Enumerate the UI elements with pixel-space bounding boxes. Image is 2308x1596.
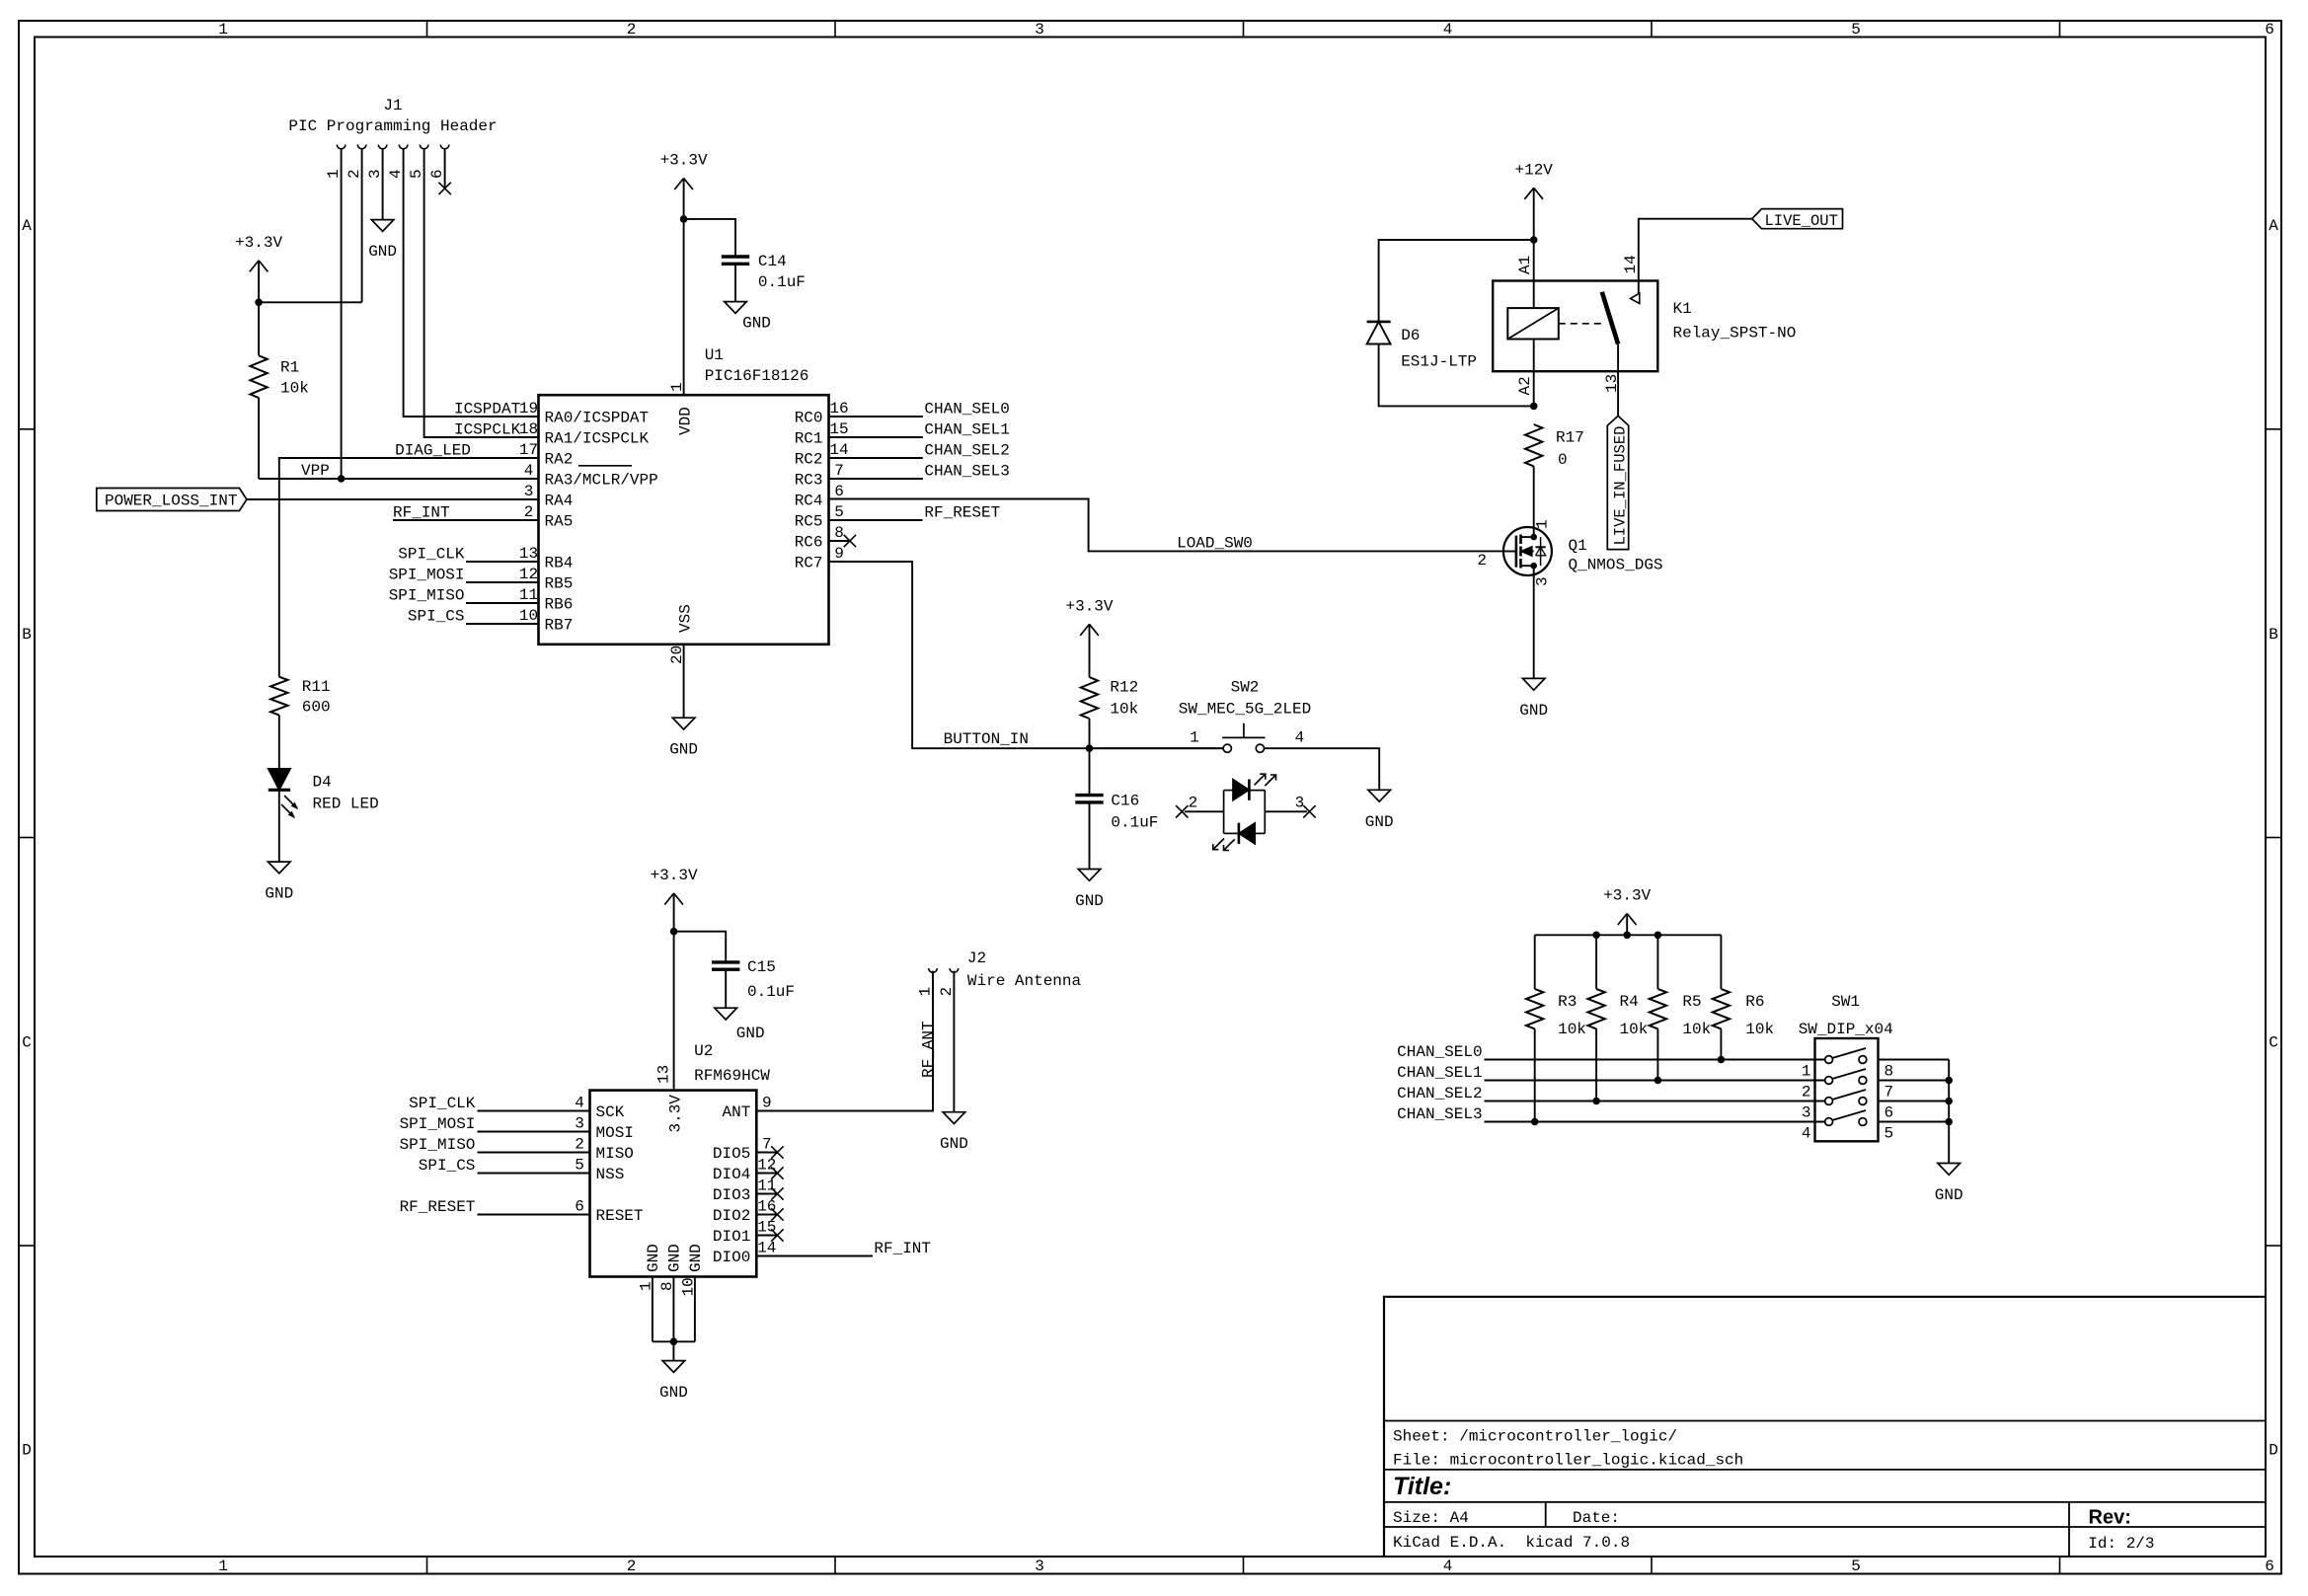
- svg-text:CHAN_SEL2: CHAN_SEL2: [924, 441, 1009, 459]
- svg-text:CHAN_SEL2: CHAN_SEL2: [1397, 1085, 1482, 1102]
- capacitor C16: [1075, 794, 1103, 797]
- SW1 switch 1 contacts: [1825, 1056, 1833, 1064]
- Q1 body diode: [1540, 537, 1542, 566]
- wire J1 pin4 to ICSPDAT: [404, 149, 539, 417]
- K1 dashed coupling line: [1559, 323, 1605, 325]
- svg-text:DIO1: DIO1: [713, 1228, 750, 1246]
- svg-text:RC7: RC7: [795, 555, 823, 572]
- Q1 gate wire entering: [1503, 551, 1516, 553]
- wire +12V to D6 cathode: [1379, 240, 1534, 322]
- junction VDD/C14: [680, 215, 688, 223]
- wire Q1 source to GND: [1533, 566, 1535, 678]
- wire junction to C16: [1089, 748, 1091, 795]
- svg-text:RC0: RC0: [795, 410, 823, 427]
- svg-text:7: 7: [762, 1136, 772, 1154]
- Q1 drain stub: [1521, 536, 1534, 538]
- SW1 body: [1815, 1038, 1879, 1141]
- svg-text:10k: 10k: [1110, 701, 1138, 719]
- svg-text:9: 9: [762, 1095, 772, 1112]
- svg-text:+3.3V: +3.3V: [1603, 887, 1651, 905]
- svg-text:U2: U2: [694, 1042, 713, 1060]
- svg-text:SW_DIP_x04: SW_DIP_x04: [1799, 1021, 1893, 1038]
- K1 pin A2: [1533, 340, 1535, 407]
- SW2 LED2 (bottom, pointing left): [1224, 832, 1239, 834]
- svg-text:LOAD_SW0: LOAD_SW0: [1177, 535, 1253, 553]
- SW1 right bus vertical: [1948, 1060, 1950, 1164]
- J1 pin 5 connector circle: [420, 145, 428, 149]
- junction R3 bottom: [1531, 1118, 1539, 1126]
- ground symbol U1 VSS: [672, 718, 695, 729]
- svg-text:+3.3V: +3.3V: [660, 152, 708, 170]
- ground symbol SW1: [1938, 1164, 1961, 1176]
- K1 switch blade: [1602, 292, 1618, 344]
- capacitor C14: [722, 255, 749, 258]
- wire J1 pin3 to GND: [382, 149, 384, 220]
- svg-text:D: D: [22, 1442, 32, 1460]
- svg-text:Relay_SPST-NO: Relay_SPST-NO: [1673, 325, 1797, 342]
- svg-text:5: 5: [408, 169, 425, 179]
- wire CHAN_SEL3 to SW1: [1485, 1121, 1825, 1123]
- U2 DIO1 no-connect stub: [756, 1235, 777, 1237]
- wire SW1 right pin 5: [1879, 1121, 1950, 1123]
- svg-text:RC2: RC2: [795, 451, 823, 469]
- svg-text:SPI_CS: SPI_CS: [419, 1157, 476, 1175]
- SW2 actuator: [1222, 736, 1265, 738]
- svg-text:7: 7: [834, 462, 844, 480]
- svg-text:RB5: RB5: [545, 575, 574, 593]
- svg-text:RF_RESET: RF_RESET: [924, 503, 1000, 521]
- svg-text:6: 6: [1885, 1104, 1894, 1122]
- svg-text:2: 2: [938, 987, 956, 997]
- wire SPI_MISO to U1: [466, 602, 539, 604]
- K1 fixed contact (pin 14): [1631, 293, 1640, 304]
- wire SPI_CLK to U1: [466, 561, 539, 563]
- global label POWER_LOSS_INT: [97, 489, 247, 511]
- svg-text:SCK: SCK: [596, 1103, 625, 1121]
- frame column ticks: [426, 21, 428, 38]
- svg-text:MOSI: MOSI: [596, 1124, 634, 1142]
- power +3.3V (SW1 pullups): [1618, 914, 1627, 926]
- svg-text:16: 16: [757, 1198, 776, 1216]
- svg-text:8: 8: [1885, 1063, 1894, 1081]
- wire SPI_MOSI to U2: [478, 1131, 590, 1133]
- wire to C14: [684, 219, 735, 257]
- svg-text:1: 1: [1534, 519, 1552, 529]
- diode D6: [1367, 321, 1391, 324]
- svg-text:RB7: RB7: [545, 617, 574, 635]
- svg-text:+3.3V: +3.3V: [235, 234, 282, 252]
- wire SPI_MISO to U2: [478, 1152, 590, 1154]
- svg-text:12: 12: [519, 566, 538, 583]
- SW2 pin 2 stub no-connect: [1185, 810, 1224, 812]
- svg-text:PIC Programming Header: PIC Programming Header: [288, 117, 497, 135]
- svg-text:2: 2: [1802, 1084, 1811, 1102]
- junction R4 bottom: [1592, 1098, 1600, 1105]
- svg-text:13: 13: [655, 1065, 673, 1084]
- wire D6 anode to A2 node: [1379, 344, 1534, 407]
- svg-text:C16: C16: [1111, 793, 1139, 810]
- svg-text:RFM69HCW: RFM69HCW: [694, 1067, 770, 1085]
- ground symbol C14: [725, 302, 747, 314]
- svg-text:SPI_MOSI: SPI_MOSI: [400, 1115, 476, 1133]
- svg-text:RESET: RESET: [596, 1207, 644, 1225]
- svg-text:GND: GND: [1365, 813, 1394, 831]
- wire DIAG_LED (RA2 to R11): [279, 458, 539, 677]
- svg-text:6: 6: [428, 169, 446, 179]
- svg-text:B: B: [22, 626, 32, 644]
- SW1 switch 2 blade: [1832, 1069, 1866, 1079]
- wire RF_INT to RA5: [393, 519, 539, 521]
- svg-text:GND: GND: [669, 741, 698, 759]
- wire CHAN_SEL3 from U1: [829, 478, 923, 480]
- SW2 LED2 emission arrows: [1213, 839, 1224, 850]
- wire SW1 right pin 8: [1879, 1059, 1950, 1061]
- svg-text:CHAN_SEL0: CHAN_SEL0: [1397, 1043, 1482, 1061]
- svg-text:1: 1: [917, 987, 935, 997]
- svg-text:13: 13: [519, 545, 538, 563]
- wire CHAN_SEL1 from U1: [829, 436, 923, 438]
- wire CHAN_SEL2 from U1: [829, 457, 923, 459]
- svg-text:13: 13: [1603, 374, 1621, 393]
- svg-text:SPI_MOSI: SPI_MOSI: [389, 566, 465, 583]
- svg-text:14: 14: [1622, 255, 1640, 273]
- svg-text:2: 2: [1477, 552, 1487, 570]
- svg-text:Rev:: Rev:: [2089, 1507, 2131, 1529]
- svg-text:2: 2: [1189, 795, 1198, 812]
- svg-text:RA5: RA5: [545, 513, 574, 531]
- svg-text:DIAG_LED: DIAG_LED: [395, 441, 471, 459]
- svg-text:4: 4: [575, 1095, 584, 1112]
- wire RF_RESET to U2: [478, 1214, 590, 1216]
- svg-text:GND: GND: [265, 885, 293, 903]
- svg-text:DIO0: DIO0: [713, 1249, 750, 1266]
- wire SPI_CLK to U2: [478, 1110, 590, 1112]
- global label LIVE_OUT: [1752, 209, 1843, 229]
- power +3.3V (U2): [664, 893, 673, 905]
- svg-text:C14: C14: [758, 253, 787, 270]
- SW1 switch 4 blade: [1832, 1110, 1866, 1120]
- wire J1 pin1 to VPP net: [341, 149, 343, 479]
- power +3.3V (R12): [1080, 624, 1089, 636]
- svg-text:10k: 10k: [1745, 1021, 1774, 1038]
- connector J2 pin2 circle: [950, 968, 959, 972]
- wire to C15: [674, 932, 727, 962]
- SW1 switch 4 contacts: [1825, 1118, 1833, 1126]
- svg-text:LIVE_IN_FUSED: LIVE_IN_FUSED: [1611, 426, 1629, 546]
- svg-text:R1: R1: [280, 359, 299, 377]
- svg-text:ANT: ANT: [722, 1103, 750, 1121]
- svg-text:Date:: Date:: [1573, 1509, 1620, 1527]
- svg-text:SW_MEC_5G_2LED: SW_MEC_5G_2LED: [1179, 701, 1311, 719]
- junction VPP / J1 pin1: [338, 475, 346, 483]
- svg-text:GND: GND: [1935, 1186, 1963, 1204]
- ground symbol C15: [715, 1008, 737, 1020]
- svg-text:5: 5: [575, 1157, 584, 1175]
- relay K1 body: [1493, 281, 1657, 372]
- resistor R5: [1656, 935, 1658, 989]
- svg-text:9: 9: [834, 545, 844, 563]
- J1 pin 6 connector circle: [440, 145, 449, 149]
- svg-text:BUTTON_IN: BUTTON_IN: [944, 730, 1029, 748]
- svg-text:GND: GND: [742, 315, 771, 333]
- svg-text:5: 5: [1851, 21, 1861, 38]
- svg-text:GND: GND: [687, 1244, 705, 1272]
- svg-text:3: 3: [524, 483, 534, 500]
- svg-text:GND: GND: [1519, 702, 1548, 720]
- svg-text:0.1uF: 0.1uF: [747, 983, 795, 1001]
- transistor Q1 circle: [1503, 527, 1552, 575]
- svg-text:600: 600: [302, 699, 331, 717]
- svg-text:C15: C15: [747, 958, 776, 976]
- svg-text:ICSPCLK: ICSPCLK: [454, 420, 521, 438]
- svg-text:1: 1: [1802, 1063, 1811, 1081]
- junction BUTTON_IN/R12/C16: [1086, 744, 1094, 752]
- svg-text:14: 14: [829, 441, 848, 459]
- J1 pin 1 connector circle: [337, 145, 346, 149]
- svg-text:RC5: RC5: [795, 513, 823, 531]
- svg-text:LIVE_OUT: LIVE_OUT: [1765, 212, 1838, 230]
- svg-text:PIC16F18126: PIC16F18126: [705, 367, 809, 385]
- title block row lines: [1384, 1420, 2266, 1422]
- svg-text:ES1J-LTP: ES1J-LTP: [1401, 353, 1477, 371]
- SW2 pin 3 stub no-connect: [1265, 810, 1307, 812]
- ground symbol J1 pin3: [371, 220, 394, 232]
- LED D4 (filled triangle + cathode bar): [269, 769, 290, 790]
- ground symbol D4: [269, 862, 291, 874]
- svg-text:VDD: VDD: [677, 407, 695, 435]
- wire POWER_LOSS_INT to RA4: [247, 498, 539, 500]
- IC U2 body: [590, 1091, 757, 1277]
- SW2 internal LEDs block: [1223, 791, 1225, 834]
- svg-text:Wire Antenna: Wire Antenna: [967, 972, 1082, 990]
- Q1 body arrow: [1521, 547, 1533, 557]
- resistor R6: [1720, 935, 1722, 989]
- wire R11 to D4: [278, 716, 280, 769]
- svg-text:+3.3V: +3.3V: [1065, 597, 1113, 615]
- U2 DIO5 no-connect stub: [756, 1152, 777, 1154]
- svg-text:VSS: VSS: [677, 604, 695, 633]
- svg-text:8: 8: [834, 524, 844, 542]
- svg-text:RF_INT: RF_INT: [874, 1240, 931, 1257]
- svg-text:J2: J2: [967, 950, 986, 967]
- svg-text:C: C: [2269, 1034, 2278, 1052]
- svg-text:3: 3: [1035, 21, 1044, 38]
- resistor R3: [1534, 935, 1536, 989]
- svg-text:J1: J1: [383, 97, 402, 114]
- SW1 switch 1 blade: [1832, 1048, 1866, 1058]
- svg-text:10: 10: [680, 1277, 698, 1296]
- U1 RA3 MCLR overline: [578, 465, 632, 467]
- svg-text:CHAN_SEL3: CHAN_SEL3: [1397, 1105, 1482, 1123]
- resistor R12: [1081, 677, 1098, 719]
- wire joining U2 GND pins: [653, 1340, 695, 1342]
- K1 pin 13 wire: [1617, 344, 1619, 417]
- svg-text:2: 2: [627, 21, 637, 38]
- wire VDD rail: [683, 179, 685, 396]
- svg-text:CHAN_SEL1: CHAN_SEL1: [1397, 1064, 1482, 1082]
- power +3.3V (U1 VDD): [674, 179, 683, 190]
- svg-text:2: 2: [627, 1558, 637, 1575]
- svg-text:Sheet: /microcontroller_logic/: Sheet: /microcontroller_logic/: [1393, 1428, 1677, 1446]
- svg-text:CHAN_SEL1: CHAN_SEL1: [924, 420, 1009, 438]
- ground symbol C16: [1078, 870, 1101, 881]
- J1 pin 4 connector circle: [399, 145, 408, 149]
- svg-text:CHAN_SEL3: CHAN_SEL3: [924, 462, 1009, 480]
- svg-text:R6: R6: [1745, 993, 1764, 1011]
- svg-text:RF_INT: RF_INT: [393, 503, 450, 521]
- svg-text:POWER_LOSS_INT: POWER_LOSS_INT: [105, 493, 237, 510]
- resistor R17: [1525, 424, 1542, 466]
- capacitor C15: [712, 960, 739, 963]
- svg-text:10k: 10k: [1620, 1021, 1649, 1038]
- junction R6 bottom: [1718, 1056, 1726, 1064]
- wire SPI_MOSI to U1: [466, 581, 539, 583]
- junction U2 GND: [670, 1338, 678, 1346]
- svg-text:2: 2: [524, 503, 534, 521]
- svg-text:11: 11: [757, 1178, 776, 1195]
- svg-text:SPI_MISO: SPI_MISO: [400, 1136, 476, 1154]
- wire RF_INT from DIO0: [756, 1255, 873, 1257]
- ground symbol J2: [943, 1112, 965, 1124]
- wire D4 to GND: [278, 790, 280, 862]
- SW2 switch contacts: [1223, 744, 1231, 752]
- J1 pin 3 connector circle: [378, 145, 387, 149]
- svg-text:15: 15: [757, 1219, 776, 1237]
- J1 pin6 stub no-connect: [444, 149, 446, 189]
- svg-text:16: 16: [829, 400, 848, 418]
- svg-text:SPI_CLK: SPI_CLK: [409, 1095, 476, 1112]
- svg-text:1: 1: [638, 1281, 655, 1291]
- svg-text:GND: GND: [1075, 892, 1104, 910]
- svg-text:4: 4: [1802, 1125, 1811, 1143]
- svg-text:3: 3: [1534, 576, 1552, 586]
- wire ANT to J2: [756, 971, 933, 1111]
- junction U2 3.3V / C15: [670, 928, 678, 936]
- svg-text:4: 4: [1443, 21, 1453, 38]
- svg-text:Title:: Title:: [1393, 1473, 1451, 1500]
- D4 emission arrows: [284, 796, 297, 808]
- svg-text:SPI_MISO: SPI_MISO: [389, 586, 465, 604]
- power +3.3V (R1 branch): [250, 261, 259, 272]
- svg-text:+3.3V: +3.3V: [651, 867, 698, 884]
- svg-text:3: 3: [1295, 795, 1305, 812]
- svg-text:12: 12: [757, 1157, 776, 1175]
- svg-text:Id: 2/3: Id: 2/3: [2088, 1535, 2154, 1553]
- svg-text:10k: 10k: [1558, 1021, 1586, 1038]
- svg-text:11: 11: [519, 586, 538, 604]
- SW2 LED1 emission arrows: [1255, 775, 1266, 786]
- svg-text:NSS: NSS: [596, 1166, 625, 1183]
- wire CHAN_SEL2 to SW1: [1485, 1101, 1825, 1102]
- svg-text:DIO3: DIO3: [713, 1186, 750, 1204]
- svg-text:6: 6: [2265, 1558, 2274, 1575]
- svg-text:B: B: [2269, 626, 2278, 644]
- svg-text:RB6: RB6: [545, 596, 574, 614]
- K1 pin A1: [1533, 281, 1535, 309]
- SW2 LED1 (top, pointing right): [1224, 790, 1233, 792]
- svg-text:RC3: RC3: [795, 472, 823, 490]
- junctions on rail: [1592, 932, 1600, 940]
- svg-text:MISO: MISO: [596, 1145, 634, 1163]
- wire RF_RESET from RC5: [829, 519, 923, 521]
- svg-text:File: microcontroller_logic.ki: File: microcontroller_logic.kicad_sch: [1393, 1452, 1743, 1470]
- svg-text:RB4: RB4: [545, 555, 574, 572]
- svg-text:10k: 10k: [1682, 1021, 1711, 1038]
- Q1 channel bar segments: [1519, 535, 1522, 545]
- svg-text:4: 4: [387, 169, 405, 179]
- svg-text:CHAN_SEL0: CHAN_SEL0: [924, 400, 1009, 418]
- svg-text:4: 4: [524, 462, 534, 480]
- svg-text:1: 1: [218, 21, 228, 38]
- svg-text:4: 4: [1443, 1558, 1453, 1575]
- title block outline: [1384, 1297, 2266, 1557]
- svg-text:3.3V: 3.3V: [667, 1095, 685, 1133]
- svg-text:18: 18: [519, 420, 538, 438]
- svg-text:3: 3: [1802, 1104, 1811, 1122]
- svg-text:SPI_CLK: SPI_CLK: [398, 545, 465, 563]
- svg-text:D4: D4: [313, 774, 332, 792]
- svg-text:17: 17: [519, 441, 538, 459]
- RC6 no-connect stub: [829, 540, 850, 542]
- svg-text:7: 7: [1885, 1084, 1894, 1102]
- svg-text:D6: D6: [1401, 327, 1420, 344]
- ground symbol Q1: [1522, 678, 1545, 690]
- svg-text:Q1: Q1: [1569, 537, 1587, 555]
- SW1 switch 3 contacts: [1825, 1098, 1833, 1105]
- frame row ticks: [19, 428, 35, 430]
- J1 pin 2 connector circle: [357, 145, 366, 149]
- svg-text:19: 19: [519, 400, 538, 418]
- +3.3V rail wire: [1535, 934, 1722, 936]
- svg-text:10: 10: [519, 607, 538, 625]
- wire SW2 pin4 to GND: [1265, 748, 1380, 790]
- svg-text:R3: R3: [1558, 993, 1577, 1011]
- Q1 gate bar: [1515, 536, 1518, 568]
- Q1 source stub: [1521, 565, 1534, 567]
- svg-text:C: C: [22, 1034, 32, 1052]
- wire R17 to Q1 drain: [1533, 466, 1535, 537]
- resistor R11: [270, 677, 287, 716]
- power +12V: [1524, 188, 1533, 199]
- wire VSS to GND: [683, 645, 685, 718]
- svg-text:DIO4: DIO4: [713, 1166, 750, 1183]
- svg-text:A: A: [22, 217, 32, 235]
- wire J1 pin2 to +3.3V rail: [259, 301, 362, 303]
- svg-text:10k: 10k: [280, 380, 309, 398]
- svg-text:RA0/ICSPDAT: RA0/ICSPDAT: [545, 410, 650, 427]
- svg-text:1: 1: [218, 1558, 228, 1575]
- svg-text:0.1uF: 0.1uF: [1111, 814, 1158, 832]
- svg-text:R5: R5: [1682, 993, 1701, 1011]
- wire CHAN_SEL0 to SW1: [1485, 1059, 1825, 1061]
- svg-text:A2: A2: [1516, 376, 1534, 395]
- svg-text:U1: U1: [705, 346, 724, 364]
- svg-text:Q_NMOS_DGS: Q_NMOS_DGS: [1569, 557, 1663, 574]
- wire LOAD_SW0 (RC4 to Q1 gate): [829, 499, 1504, 552]
- ground symbol SW2: [1368, 790, 1391, 801]
- svg-text:RA1/ICSPCLK: RA1/ICSPCLK: [545, 430, 650, 448]
- wire BUTTON_IN (RC7 to SW2): [829, 562, 1224, 748]
- svg-text:RED LED: RED LED: [313, 796, 379, 813]
- K1 coil box: [1507, 308, 1559, 339]
- svg-text:2: 2: [346, 169, 363, 179]
- svg-text:RA4: RA4: [545, 493, 574, 510]
- svg-text:SW2: SW2: [1231, 679, 1260, 697]
- resistor R1: [258, 302, 260, 355]
- svg-text:14: 14: [757, 1240, 776, 1257]
- wire SPI_CS to U1: [466, 623, 539, 625]
- title block column dividers: [1545, 1502, 1547, 1527]
